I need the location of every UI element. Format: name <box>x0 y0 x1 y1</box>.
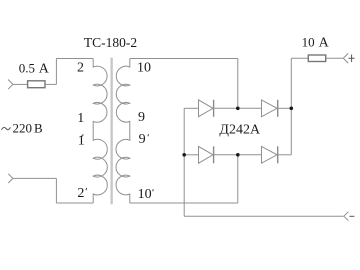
wire FU1 to corner <box>45 83 56 85</box>
wire FU2 to plus terminal <box>326 57 344 59</box>
svg-text:0.5: 0.5 <box>19 61 35 76</box>
wire plus rail to fuse FU2 <box>291 57 308 59</box>
transformer T1 primary windings (pins 2-1, 1'-2') <box>93 58 107 203</box>
svg-text:10: 10 <box>302 35 315 50</box>
label: pin 1' <box>78 133 85 148</box>
wire to diode VD3 anode <box>184 154 198 156</box>
wire top rail to transformer pin 2 <box>56 57 93 59</box>
svg-text:А: А <box>39 62 50 77</box>
junction node (bridge minus) <box>182 153 186 157</box>
label: diode type Д242А <box>219 123 261 138</box>
svg-text:220: 220 <box>13 120 33 135</box>
plus sign <box>349 55 355 63</box>
wire up to bridge AC node (bottom) <box>237 155 239 203</box>
fuse FU1 body <box>28 81 45 88</box>
label: pin 2' <box>77 186 86 201</box>
wire bridge right rail (plus) <box>290 58 292 155</box>
svg-text:9: 9 <box>138 110 145 125</box>
wire node to diode VD4 anode <box>238 154 262 156</box>
label: transformer type TC-180-2 <box>84 35 137 50</box>
label: fuse FU1 value 0.5 A <box>19 61 50 77</box>
svg-text:В: В <box>34 120 43 135</box>
wire VD3 cathode to node <box>214 154 238 156</box>
transformer T1 core <box>111 58 113 205</box>
wire transformer pin 10 to bridge top node <box>130 57 238 59</box>
label: pin 9' <box>139 132 149 147</box>
minus sign <box>349 215 354 217</box>
transformer T1 secondary windings (pins 10-9, 9'-10') <box>116 58 130 203</box>
junction node (bridge bottom AC) <box>236 153 240 157</box>
diode VD3 (bottom left) <box>199 146 214 163</box>
junction node (bridge plus) <box>290 107 294 111</box>
wire X1 to fuse FU1 <box>13 83 28 85</box>
wire vertical down to bottom rail <box>55 178 57 203</box>
wire VD4 cathode to right rail <box>278 154 292 156</box>
label: AC source tilde <box>2 127 11 129</box>
wire down to bridge AC node (top) <box>237 58 239 108</box>
diode VD1 (top left) <box>199 100 214 117</box>
svg-text:А: А <box>319 36 330 51</box>
svg-text:2: 2 <box>77 61 84 76</box>
wire VD2 cathode to plus node <box>278 107 292 109</box>
wire minus output rail <box>184 215 344 217</box>
diode VD2 (top right) <box>262 100 278 117</box>
input terminal X1 (top, ~220V) <box>8 80 13 90</box>
output terminal X4 (minus) <box>344 212 349 221</box>
output terminal X3 (plus) <box>343 53 348 63</box>
label: fuse FU2 value 10 A <box>302 35 330 51</box>
junction node (bridge top AC) <box>236 107 240 111</box>
wire VD1 cathode to node <box>214 107 238 109</box>
input terminal X2 (bottom, ~220V) <box>8 174 13 183</box>
label: pin 2 <box>77 61 84 76</box>
svg-text:10: 10 <box>137 61 151 76</box>
wire X2 to corner <box>13 177 56 179</box>
wire node to diode VD2 anode <box>238 107 262 109</box>
svg-text:ТС-180-2: ТС-180-2 <box>84 35 137 50</box>
label: pin 10 <box>137 61 151 76</box>
wire transformer pin 10' to right <box>130 202 238 204</box>
svg-text:1: 1 <box>77 111 84 126</box>
svg-text:9: 9 <box>139 132 146 147</box>
svg-text:1: 1 <box>78 133 85 148</box>
label: pin 1 <box>77 111 84 126</box>
svg-text:2: 2 <box>77 186 84 201</box>
label: pin 9 <box>138 110 145 125</box>
label: 220 V <box>13 120 44 135</box>
wire bridge left rail (minus) <box>183 108 185 216</box>
svg-text:10: 10 <box>138 187 152 202</box>
wire vertical up to top rail <box>55 58 57 84</box>
wire bottom rail to transformer pin 2' <box>56 202 93 204</box>
diode VD4 (bottom right) <box>262 146 278 163</box>
fuse FU2 body <box>308 55 325 62</box>
wire to diode VD1 anode <box>184 107 198 109</box>
svg-text:Д242А: Д242А <box>219 123 261 138</box>
label: pin 10' <box>138 187 154 202</box>
